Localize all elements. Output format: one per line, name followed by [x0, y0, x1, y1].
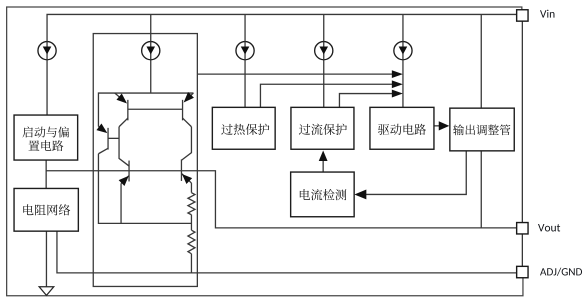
wire thermal protection output	[260, 84, 392, 107]
current source I2	[142, 42, 160, 60]
transistor Q1 (input pair left)	[127, 100, 129, 121]
pin Vout	[517, 223, 528, 234]
wire error signal to driver node	[197, 73, 392, 75]
label Vout	[538, 224, 560, 231]
resistor R1 (upper feedback)	[190, 183, 192, 193]
wire R2 to ADJ rail	[190, 254, 192, 273]
transistor Q2 (input pair right)	[182, 100, 184, 121]
block driver circuit	[370, 107, 434, 149]
wire current-limit output	[339, 94, 392, 108]
pin Vin	[517, 10, 528, 21]
wire pin column Vout-ADJ	[521, 234, 523, 267]
wire cell top rail	[98, 93, 193, 126]
block thermal protection	[212, 107, 275, 149]
block output pass transistor	[450, 108, 514, 151]
wire Q1-Q2 base link	[128, 108, 183, 110]
block current sense	[291, 172, 355, 217]
wire pin column Vin-Vout	[521, 21, 523, 223]
wire base rail to Vout rail	[46, 171, 517, 228]
wire Q2 collector drop	[181, 127, 191, 161]
wire ADJ/GND rail	[57, 231, 517, 273]
wire Q1 collector drop	[119, 127, 129, 166]
transistor Q6 (lower-right mirror)	[180, 159, 182, 181]
wire Vin rail	[47, 14, 517, 115]
wire Q5 emitter drop	[120, 184, 122, 224]
transistor Q5 (lower-left mirror)	[128, 161, 130, 182]
current source I5	[394, 42, 412, 60]
wire sense tap from pass transistor	[366, 151, 466, 195]
wire CS5 drop	[402, 14, 404, 107]
label ADJ/GND	[540, 268, 582, 276]
block overcurrent protection	[291, 107, 354, 149]
wire pass transistor to Vout rail	[480, 151, 482, 228]
wire CS4 drop	[323, 14, 325, 107]
amplifier cell boundary box	[93, 34, 197, 287]
wire CS2 drop	[150, 14, 152, 93]
wire current sense to OCP block	[322, 161, 324, 172]
ground symbol	[39, 287, 54, 296]
resistor R2 (lower feedback)	[188, 230, 195, 254]
wire Vin to pass transistor	[480, 14, 482, 108]
wire Q3 collector to feedback tap	[98, 154, 191, 224]
block startup and bias circuit	[14, 115, 78, 160]
current source I3	[236, 42, 254, 60]
label Vin	[540, 10, 554, 18]
current source I1	[38, 42, 56, 60]
transistor Q3 (bias follower)	[107, 128, 109, 150]
pin ADJ/GND	[517, 266, 528, 277]
wire CS3 drop	[244, 14, 246, 107]
wire resistor network to ground	[45, 231, 47, 287]
wire driver to pass device	[434, 125, 439, 127]
wire startup block to resistor network	[45, 160, 47, 188]
current source I4	[315, 42, 333, 60]
wire R1-R2 junction	[190, 215, 192, 230]
block resistor network	[14, 188, 78, 231]
